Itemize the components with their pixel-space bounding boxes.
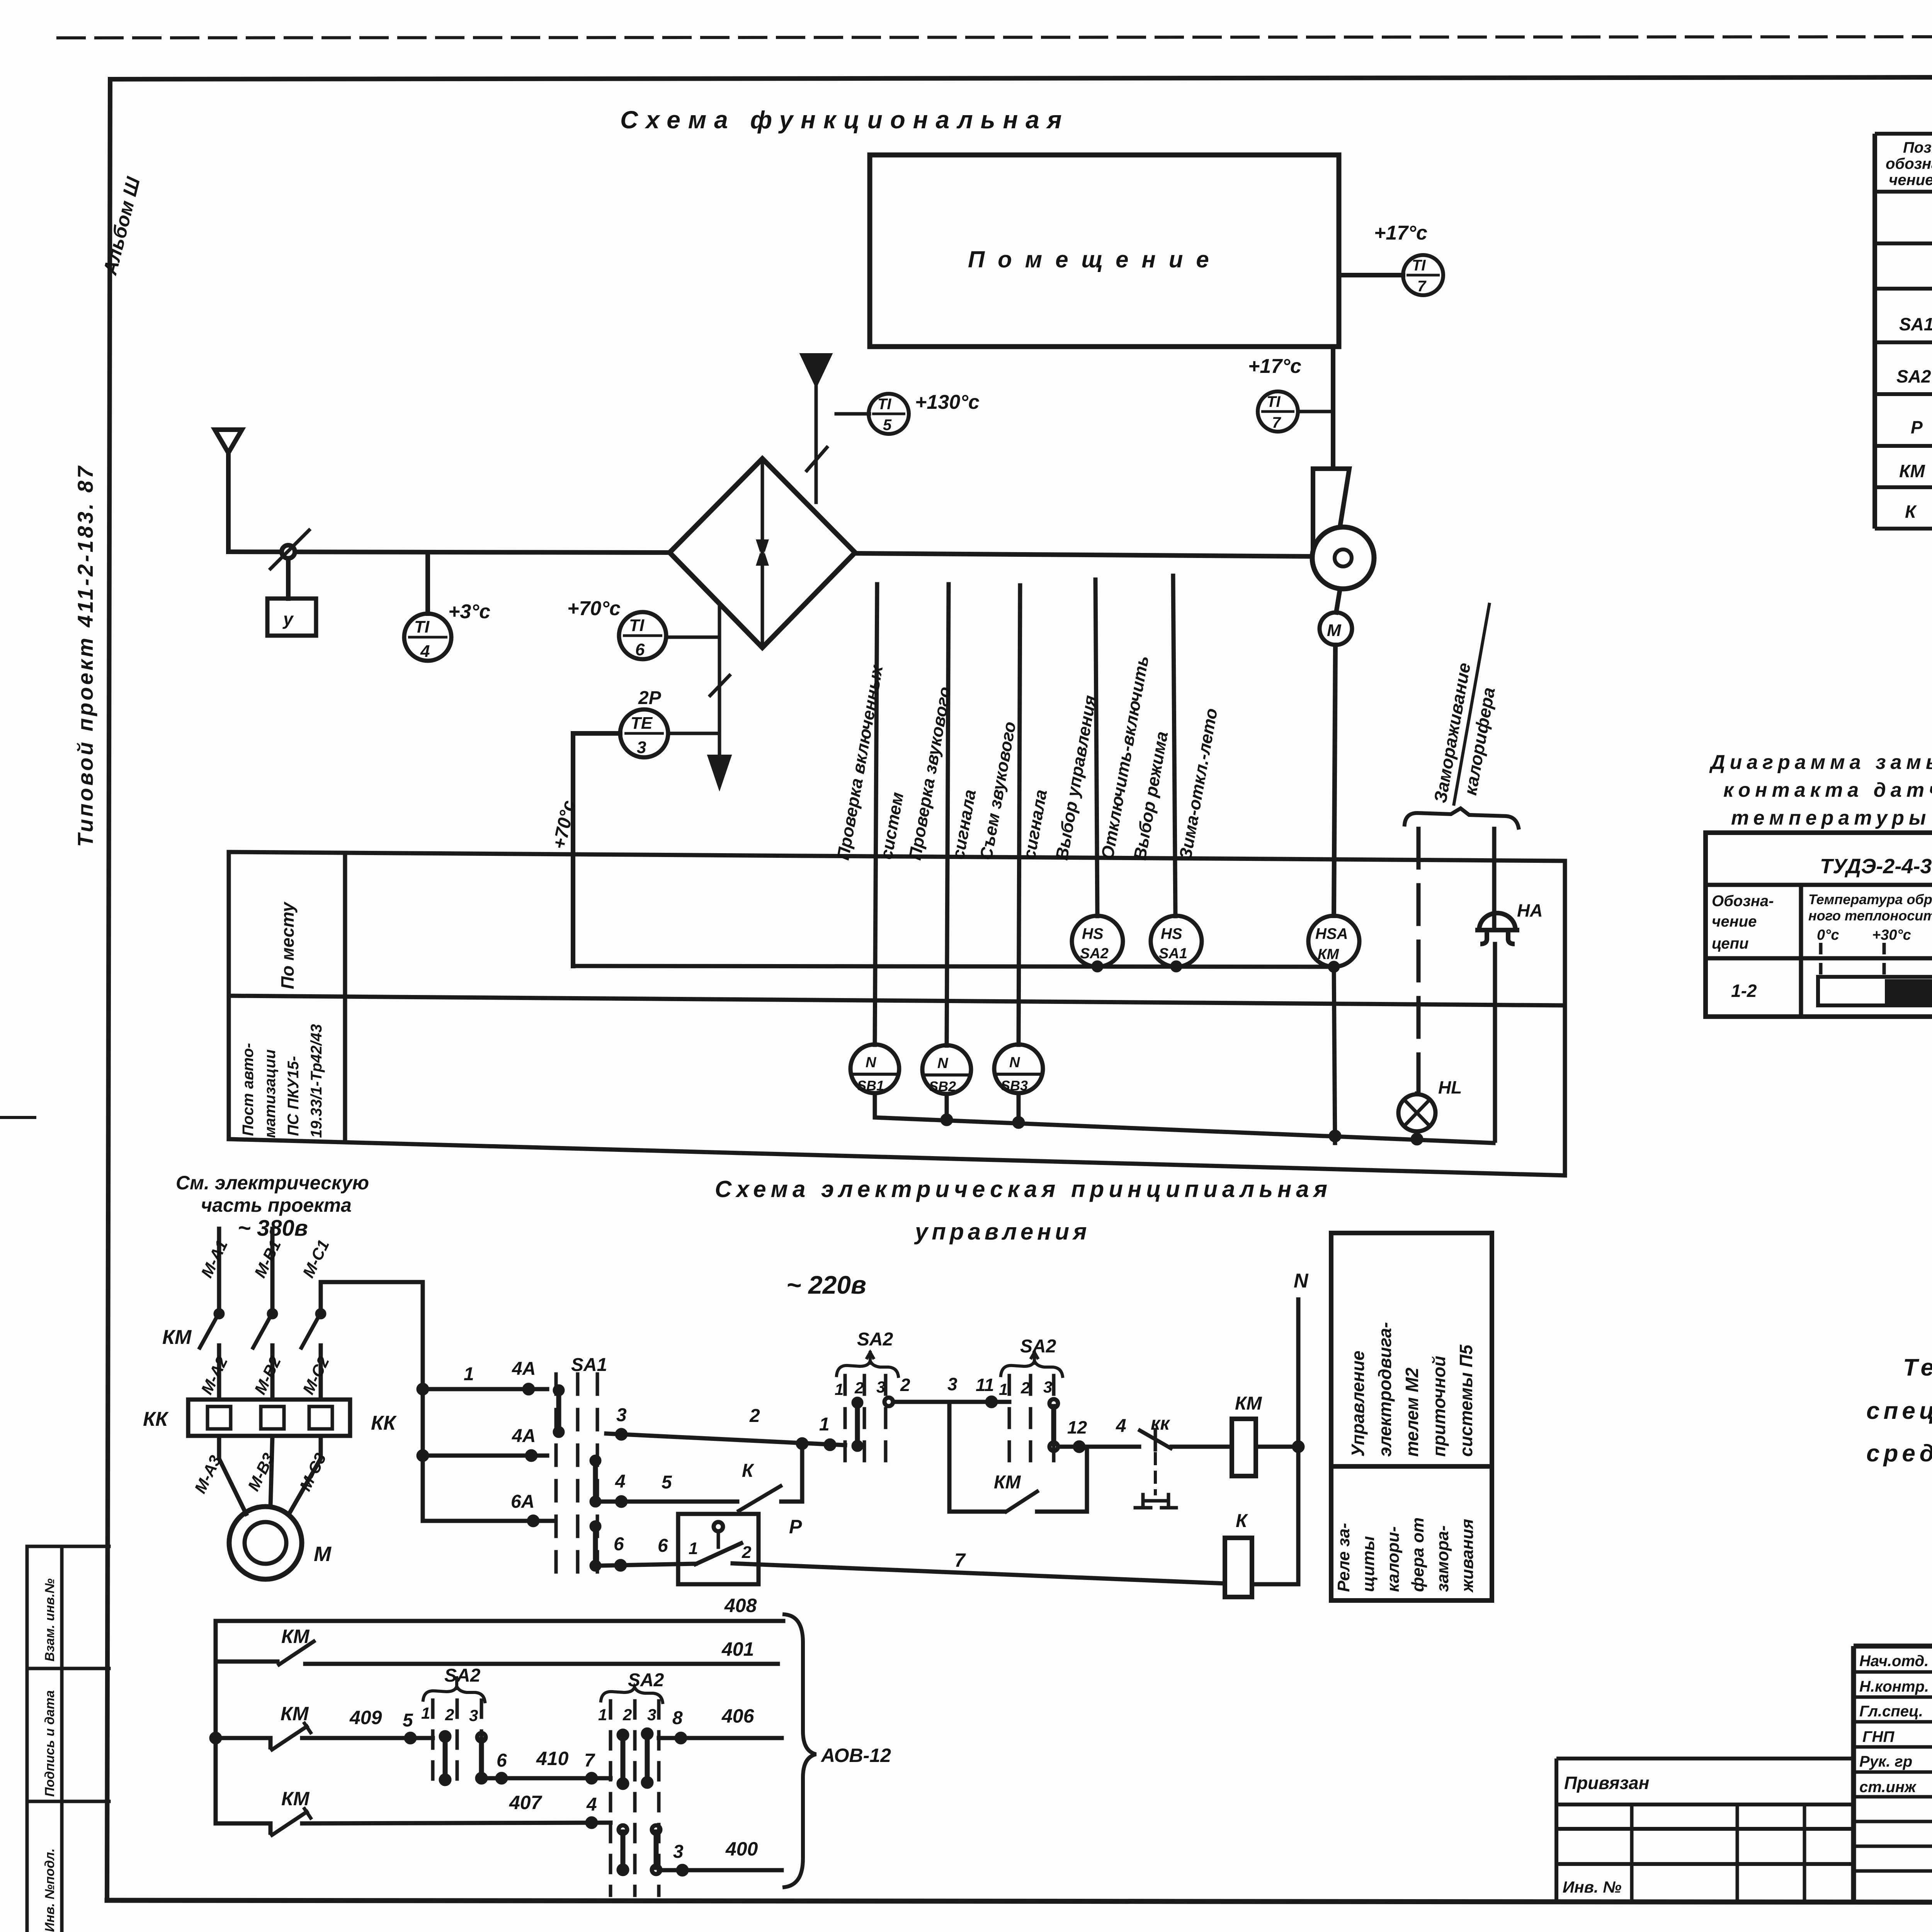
KK element C [309,1406,332,1429]
supply duct line (main horizontal) [228,552,670,553]
svg-text:4: 4 [615,1471,626,1492]
svg-text:3: 3 [637,738,646,757]
svg-text:Рук. гр: Рук. гр [1859,1753,1912,1770]
signal line 2 (SB2) [947,584,949,1046]
flow arrow into exchanger top [803,355,829,383]
svg-text:кк: кк [1151,1413,1170,1434]
top paper edge dashed line [58,36,1932,38]
svg-text:Инв. №: Инв. № [1563,1878,1621,1896]
svg-text:3: 3 [876,1378,885,1396]
SA2d lower bar 2 [654,1832,659,1867]
svg-text:TI: TI [878,396,891,413]
band right closure [1563,861,1567,1175]
node HS SA1 bottom [1172,963,1180,970]
svg-text:4: 4 [420,642,430,661]
privyazan box [1556,1759,1854,1901]
exchanger drain drop with break and arrow [710,604,730,732]
svg-text:3: 3 [1043,1378,1052,1396]
wire 1 to SA1 [423,1387,547,1391]
phase A KM contact [216,1310,223,1317]
wire TE3 right link [668,732,719,735]
svg-text:SA1: SA1 [571,1355,607,1375]
control bus vertical [421,1282,425,1521]
svg-text:КК: КК [143,1408,169,1430]
wire 408 [216,1619,783,1623]
wire room to TI7a [1339,273,1403,277]
svg-text:цепи: цепи [1712,935,1748,952]
svg-text:3: 3 [616,1405,627,1425]
sensor dashed markers [1821,943,1932,978]
band outline left [227,852,231,1139]
KM self hold branch [949,1402,1005,1512]
sensor closure bar filled part [1885,979,1932,1004]
svg-text:ПС ПКУ15-: ПС ПКУ15- [285,1056,302,1136]
heat exchanger (diamond) [670,459,855,648]
SA2d lower bar 1 [621,1832,626,1867]
SA2a arrow [867,1352,873,1363]
wire room bottom drop to fan [1331,347,1335,469]
svg-text:Обозна-: Обозна- [1712,893,1774,910]
signal line 1 (SB1) [875,584,877,1045]
phase C KM contact [317,1310,324,1317]
SA2a output terminal [884,1398,893,1406]
svg-text:Привязан: Привязан [1564,1773,1649,1793]
left margin table [27,1546,109,1932]
svg-text:N: N [866,1054,877,1071]
svg-text:2: 2 [742,1543,752,1562]
svg-text:НSА: НSА [1315,925,1348,942]
svg-text:3: 3 [673,1842,684,1862]
TI7b instrument circle [1258,391,1298,432]
brace over freeze lines [1405,808,1519,828]
svg-text:4: 4 [586,1794,597,1815]
svg-text:2: 2 [445,1706,454,1724]
room box Pomeshchenie [870,155,1339,347]
svg-text:~ 220в: ~ 220в [786,1270,866,1299]
phase A line [217,1229,221,1400]
svg-text:КМ: КМ [994,1472,1021,1493]
TE3 instrument circle [620,709,668,757]
svg-text:2: 2 [1020,1379,1030,1397]
wire 6A to SA1 [423,1519,555,1523]
svg-text:2Р: 2Р [638,688,662,708]
svg-text:К: К [1905,502,1917,522]
alarm line HA drop upper [1492,829,1497,929]
svg-text:410: 410 [536,1748,569,1769]
svg-text:19.33/1-Тр42/43: 19.33/1-Тр42/43 [308,1024,325,1138]
KM self hold contact [1006,1492,1037,1512]
svg-text:TE: TE [631,714,653,733]
contact K [739,1486,781,1511]
sensor closure bar open part [1818,977,1932,1005]
svg-text:4: 4 [1116,1416,1126,1436]
alarm line HA drop lower [1493,944,1497,1141]
wire 3 from SA1 [606,1434,845,1445]
SA1 contact bar 3 [593,1527,598,1565]
node bus wire2 [418,1451,427,1460]
left fold tick [0,1116,35,1119]
svg-text:1-2: 1-2 [1731,981,1757,1001]
function box [1331,1233,1492,1600]
svg-text:0°с: 0°с [1817,927,1839,943]
band bottom line [229,1139,1565,1175]
svg-text:часть проекта: часть проекта [201,1194,352,1216]
svg-text:1: 1 [598,1706,607,1724]
svg-text:6: 6 [658,1536,668,1556]
svg-text:Поз.: Поз. [1903,139,1932,156]
wire diamond to fan [855,553,1313,556]
wire 401 [305,1662,778,1666]
svg-text:КМ: КМ [1235,1393,1262,1414]
damper node [282,545,295,558]
svg-text:406: 406 [721,1705,755,1727]
svg-text:407: 407 [509,1792,543,1813]
svg-text:Реле за-: Реле за- [1334,1523,1353,1592]
svg-text:SB2: SB2 [929,1078,956,1094]
switch HSA KM [1308,916,1359,967]
node bus mid [211,1734,220,1742]
AOB left bus [214,1621,218,1823]
svg-text:Схема функциональная: Схема функциональная [620,106,1070,134]
band label column divider [343,853,347,1140]
svg-text:SB3: SB3 [1001,1078,1028,1094]
SA2d bar 2 [645,1736,650,1780]
SA2b contact bar [1051,1406,1056,1444]
node bus wire1 [418,1385,427,1393]
svg-text:1: 1 [464,1364,474,1384]
svg-text:калори-: калори- [1384,1526,1403,1592]
svg-text:Технические термометры ТI з: Технические термометры ТI заказываются в [1903,1354,1932,1381]
node wire1 input [826,1440,834,1449]
svg-text:Помещение: Помещение [968,247,1222,272]
SA2d brace [601,1687,663,1702]
signal line 5 (HS SA1) [1173,576,1175,916]
svg-text:НS: НS [1161,925,1182,942]
svg-text:SA1: SA1 [1899,314,1932,334]
switch HS SA2 [1072,916,1123,967]
svg-text:КМ: КМ [281,1703,309,1725]
svg-text:8: 8 [672,1708,683,1728]
svg-text:+70°c: +70°c [567,597,621,620]
svg-text:замора-: замора- [1433,1526,1452,1592]
svg-text:обозна-: обозна- [1886,155,1932,172]
svg-text:N: N [937,1055,949,1071]
pushbutton lamp N SB3 [994,1044,1043,1093]
svg-text:Н.контр.: Н.контр. [1859,1678,1929,1695]
wire KM coil to N [1256,1445,1298,1449]
svg-text:1: 1 [835,1380,844,1398]
svg-text:КМ: КМ [281,1788,310,1810]
fan volute blade [1313,469,1349,553]
KM contact a [216,1660,277,1664]
wire M down to panel row [1334,645,1335,916]
svg-text:М: М [314,1543,332,1566]
svg-text:См. электрическую: См. электрическую [176,1172,369,1194]
motor leads [219,1436,321,1514]
signal line 3 (SB3) [1019,585,1020,1045]
svg-text:электродвига-: электродвига- [1375,1322,1395,1457]
svg-text:2: 2 [900,1375,910,1395]
svg-text:ст.инж: ст.инж [1859,1779,1917,1796]
svg-text:TI: TI [414,617,430,636]
svg-text:По месту: По месту [277,901,298,989]
svg-text:ТУДЭ-2-4-3: ТУДЭ-2-4-3 [1820,855,1932,878]
svg-text:7: 7 [1272,414,1281,431]
title block outline [1854,1646,1932,1901]
svg-text:401: 401 [721,1638,754,1660]
temperature relay P box [678,1514,759,1584]
SA2c brace [423,1686,485,1702]
frame bottom border [107,1900,1932,1903]
coil KM [1232,1419,1256,1476]
svg-text:3: 3 [947,1374,957,1394]
motor M outer [229,1507,302,1579]
device U box [267,599,316,636]
wire K coil to N [1252,1582,1298,1587]
svg-text:SB1: SB1 [857,1078,884,1094]
svg-text:3: 3 [647,1706,656,1724]
svg-text:живания: живания [1458,1519,1477,1593]
node HSA KM bottom [1330,963,1338,971]
signature texts [1859,1653,1932,1796]
svg-text:Типовой проект 411-2-183. 87: Типовой проект 411-2-183. 87 [73,464,97,847]
svg-text:TI: TI [629,616,645,635]
svg-text:у: у [282,609,294,629]
damper slash [270,530,309,569]
SA2b brace [1001,1361,1063,1376]
svg-text:2: 2 [854,1379,864,1397]
svg-text:6: 6 [614,1534,624,1554]
svg-text:Подпись и дата: Подпись и дата [43,1690,57,1797]
svg-text:7: 7 [584,1750,595,1771]
svg-text:Управление: Управление [1348,1350,1368,1457]
underline for freeze label [1454,603,1490,806]
wire 407 [302,1823,611,1823]
svg-text:Схема электрическая принципи: Схема электрическая принципиальная [715,1176,1332,1202]
SA2c bar 1 [443,1739,448,1777]
fan circle [1312,527,1374,589]
svg-text:управления: управления [914,1219,1090,1245]
svg-text:SA2: SA2 [857,1329,893,1350]
wire TI7b link [1298,410,1333,413]
node SB2 drop [945,1094,949,1120]
AOB brace [784,1614,816,1887]
svg-text:6: 6 [497,1750,507,1771]
wire 410 [481,1776,611,1781]
phase C line [319,1282,323,1400]
svg-text:НА: НА [1517,900,1543,920]
switch SA1 dashed columns [556,1374,597,1575]
svg-text:+3°c: +3°c [448,600,490,623]
svg-text:N: N [1294,1270,1309,1292]
svg-text:+130°c: +130°c [915,391,980,413]
band top line [229,852,1565,861]
wire 400 [659,1868,782,1872]
wire TI5 stem with break [807,383,827,502]
svg-text:спецификации оборудования на: спецификации оборудования на приборы и [1866,1398,1932,1424]
KK element B [261,1406,284,1429]
wire 409 [302,1736,433,1740]
wire 2-3-11 [893,1400,1009,1404]
svg-text:SA2: SA2 [628,1670,664,1690]
svg-text:Р: Р [789,1516,802,1537]
KK test hook dashed [1154,1454,1157,1494]
wire TE3 left loop [573,733,620,966]
svg-text:КМ: КМ [162,1326,192,1349]
svg-text:SA2: SA2 [1896,366,1931,386]
motor M circle [1320,612,1352,645]
svg-text:НS: НS [1082,925,1104,942]
svg-text:телем М2: телем М2 [1402,1367,1422,1457]
frame left border [107,79,110,1900]
phase B KM contact [269,1310,276,1317]
switch SA2d dashed [611,1701,659,1895]
svg-text:7: 7 [1417,278,1427,295]
element table grid [1875,134,1932,529]
svg-text:4А: 4А [512,1426,536,1446]
lamp HL [1398,1094,1435,1131]
wire HL top dashed joins [1415,1094,1419,1094]
sensor wire TE3 to HS row [573,966,1334,967]
node HS SA2 bottom [1094,963,1101,970]
TI7a instrument circle [1403,255,1443,295]
TI6 instrument circle [619,612,666,659]
KK hook [1135,1495,1176,1508]
svg-text:Р: Р [1911,417,1923,437]
svg-text:щиты: щиты [1359,1536,1378,1592]
coil K [1225,1538,1252,1597]
line N vertical [1296,1299,1301,1584]
TI4 instrument circle [404,614,451,661]
svg-text:КМ: КМ [1318,946,1339,963]
svg-text:2: 2 [749,1406,760,1426]
svg-text:ного теплоносителя: ного теплоносителя [1808,908,1932,923]
SA2a contact bar [855,1403,860,1445]
svg-text:Нач.отд.: Нач.отд. [1859,1653,1929,1670]
svg-text:1: 1 [689,1539,698,1558]
svg-text:+30°с: +30°с [1872,927,1911,943]
P internal switch [714,1522,723,1531]
bell HA [1475,913,1519,944]
svg-text:4А: 4А [512,1359,536,1379]
wire 12-4 to KK [1058,1445,1139,1449]
SA2a brace [837,1361,898,1376]
svg-text:К: К [1236,1511,1248,1531]
svg-text:матизации: матизации [262,1049,279,1138]
thermal relay KK box [188,1400,350,1436]
svg-text:408: 408 [724,1595,757,1616]
wire 7 P to K coil [733,1563,1225,1583]
svg-text:контакта датчика: контакта датчика [1723,779,1932,801]
signature rows [1854,1672,1932,1871]
svg-text:5: 5 [883,417,892,434]
svg-text:М: М [1327,621,1342,640]
svg-text:1: 1 [999,1380,1008,1398]
frame top border [110,77,1932,79]
svg-text:5: 5 [403,1710,413,1731]
svg-text:Пост авто-: Пост авто- [240,1043,257,1136]
switch SA2b dashed columns [1009,1376,1054,1473]
heat exchanger inner flow line [761,461,764,645]
svg-text:КМ: КМ [1899,461,1925,481]
SA2c arrow [455,1678,458,1689]
svg-text:Взам. инв.№: Взам. инв.№ [43,1578,57,1662]
SA2d bar 1 [621,1737,626,1781]
svg-text:АОВ-12: АОВ-12 [820,1745,891,1766]
svg-text:400: 400 [725,1838,758,1860]
wire 6 from SA1 to P [597,1564,696,1566]
svg-text:Инв. №подл.: Инв. №подл. [43,1848,57,1932]
svg-text:TI: TI [1412,257,1426,274]
node KM coil N [1294,1442,1303,1451]
SA1 contact bar 2 [593,1461,598,1501]
band middle line [229,996,1565,1005]
svg-text:SA2: SA2 [1080,946,1109,962]
svg-text:SA2: SA2 [444,1665,481,1686]
node HL joins bottom wire [1413,1135,1421,1143]
phase B line [270,1229,275,1400]
KM contact c [216,1823,270,1833]
svg-text:409: 409 [349,1707,382,1728]
svg-text:НL: НL [1438,1077,1462,1097]
switch SA2a dashed columns [845,1376,886,1473]
svg-text:К: К [742,1461,755,1481]
pushbutton lamp N SB2 [922,1045,971,1094]
svg-text:Гл.спец.: Гл.спец. [1859,1703,1923,1720]
freeze sensing dashed drop [1417,829,1421,1094]
node fan line joins bottom wire [1331,1132,1339,1140]
wire HSA KM down [1334,967,1335,1143]
KK element A [207,1406,231,1429]
SB lamps bottom wire [875,1094,1493,1143]
TUDE table frame [1706,833,1932,1017]
switch SA2c dashed [433,1700,481,1787]
svg-text:6А: 6А [511,1492,534,1512]
svg-text:чение: чение [1889,172,1932,189]
svg-text:фера от: фера от [1408,1517,1427,1592]
SA2b arrow [1031,1352,1037,1363]
svg-text:Температура обрат-: Температура обрат- [1808,891,1932,907]
svg-text:5: 5 [662,1472,672,1493]
wire 4-5 with K contact [597,1500,737,1504]
SA1 contact bar 1 [556,1391,561,1431]
svg-text:приточной: приточной [1429,1356,1449,1457]
svg-text:+17°c: +17°c [1374,222,1427,244]
TI5 instrument circle [869,394,909,434]
svg-text:КМ: КМ [281,1626,310,1647]
wire 406 [659,1736,782,1740]
svg-text:+17°c: +17°c [1248,355,1301,378]
control feed from phase C [321,1280,423,1284]
wire 4A to SA1 [423,1454,547,1458]
svg-text:SA1: SA1 [1159,946,1187,962]
wire damper to U-box [286,558,291,599]
air intake antenna [215,430,242,552]
svg-text:TI: TI [1267,393,1281,410]
svg-text:1: 1 [819,1414,830,1435]
wire fan to motor M [1336,589,1340,612]
svg-text:КК: КК [371,1412,397,1434]
svg-text:7: 7 [954,1549,966,1571]
svg-text:12: 12 [1067,1417,1087,1437]
node SB3 drop [1017,1094,1021,1122]
wire TI5 link [836,412,869,416]
svg-text:N: N [1009,1054,1020,1071]
wire TI4 stem [425,553,430,614]
switch HS SA1 [1151,916,1202,967]
svg-text:средства автоматизации.: средства автоматизации. [1866,1440,1932,1467]
svg-text:чение: чение [1712,913,1757,930]
